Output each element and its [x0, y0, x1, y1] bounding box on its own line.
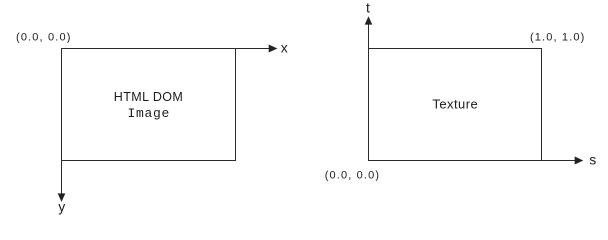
label (0.0, 0.0) bottom-left of texture box [325, 169, 381, 181]
svg-text:s: s [589, 151, 596, 167]
x axis label [281, 39, 288, 55]
text Texture [432, 96, 478, 111]
svg-text:Texture: Texture [432, 96, 478, 111]
svg-text:y: y [58, 198, 65, 214]
y axis label [58, 198, 65, 214]
s axis label [589, 151, 596, 167]
text HTML DOM [114, 90, 183, 104]
s axis [369, 157, 584, 165]
x axis [62, 45, 278, 53]
image rectangle (HTML DOM Image box) [62, 49, 236, 161]
text Image (monospace) [128, 106, 171, 121]
svg-text:x: x [281, 39, 288, 55]
y axis [58, 49, 66, 203]
texture rectangle (Texture box) [369, 49, 542, 161]
svg-text:(0.0, 0.0): (0.0, 0.0) [16, 31, 72, 43]
svg-text:(0.0, 0.0): (0.0, 0.0) [325, 169, 381, 181]
svg-text:Image: Image [128, 106, 171, 121]
svg-text:t: t [366, 0, 370, 16]
label (0.0, 0.0) top-left of image box [16, 31, 72, 43]
svg-text:(1.0, 1.0): (1.0, 1.0) [530, 31, 586, 43]
svg-text:HTML DOM: HTML DOM [114, 90, 183, 104]
t axis label [366, 0, 370, 16]
t axis [365, 16, 373, 160]
label (1.0, 1.0) top-right of texture box [530, 31, 586, 43]
